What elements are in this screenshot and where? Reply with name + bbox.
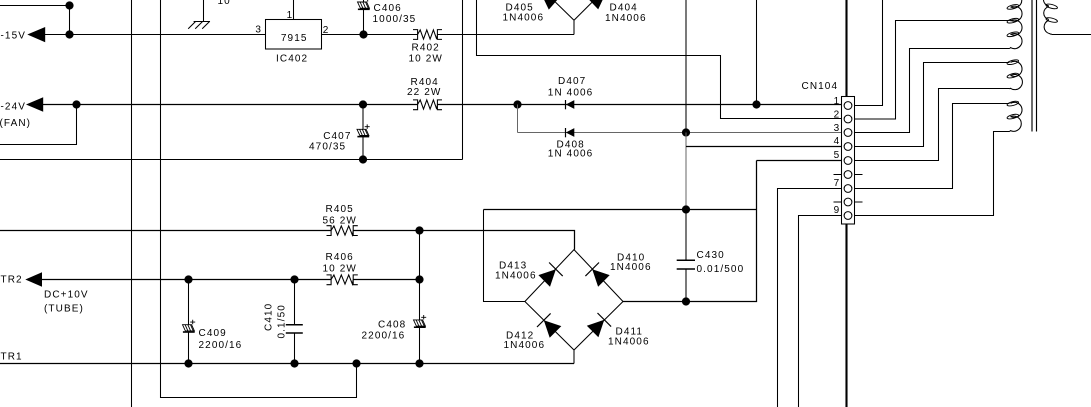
wire vertical net to C430 upper: [685, 0, 687, 133]
wire link R405 to R406: [419, 231, 421, 280]
node junction C409 bottom: [184, 359, 192, 367]
node junction -24V branch: [72, 100, 80, 108]
transformer T1 secondary winding: [1007, 0, 1023, 131]
wire pin7 to transformer: [855, 104, 1010, 189]
wire pin9 drop: [799, 216, 842, 407]
diode D408: [548, 128, 594, 160]
op-amp U1 regulator IC402 7915 body: [266, 20, 322, 65]
resistor R404: [407, 77, 442, 110]
wire TR2 rail: [41, 279, 420, 281]
svg-text:C406: C406: [374, 3, 402, 14]
wire vertical return left of bridge1: [462, 0, 464, 160]
svg-text:1000/35: 1000/35: [373, 14, 417, 25]
svg-text:TR1: TR1: [1, 352, 23, 363]
wire pin4 net: [686, 146, 842, 148]
node junction at C430 top: [682, 205, 690, 213]
svg-text:1: 1: [834, 96, 841, 107]
ground: [188, 0, 210, 29]
wire bridge2 right vertex to pin5 riser: [623, 161, 842, 302]
pin 6 CN104: [834, 171, 863, 179]
wire thick boundary upper: [845, 0, 847, 97]
svg-text:1N4006: 1N4006: [608, 336, 650, 347]
diode D407: [548, 76, 594, 110]
wire DC- line to bridge2 top: [0, 231, 575, 250]
pin 2 CN104: [834, 109, 852, 123]
node junction pin1 net: [752, 100, 760, 108]
svg-text:2: 2: [834, 109, 841, 120]
svg-text:10: 10: [218, 0, 231, 7]
wire bridge2 bottom drop to TR1: [573, 350, 575, 364]
node junction D407/D408: [513, 100, 521, 108]
wire IC402 output rail: [322, 34, 575, 36]
svg-text:CN104: CN104: [802, 81, 839, 92]
svg-text:10 2W: 10 2W: [409, 54, 443, 65]
net label TR2 DC+10V (TUBE) arrow: [1, 272, 89, 314]
transformer T1 core: [1032, 0, 1037, 132]
wire pin5 to transformer: [855, 89, 1010, 161]
svg-text:1N4006: 1N4006: [504, 340, 546, 351]
node junction C408 bottom: [415, 359, 423, 367]
capacitor C406: [358, 0, 417, 35]
wire pin3 to transformer: [855, 49, 1010, 133]
wire pin4 to transformer: [855, 63, 1010, 147]
wire pin2 to transformer: [855, 21, 1010, 120]
svg-text:C408: C408: [378, 319, 406, 330]
wire ground return rail: [0, 159, 463, 161]
diode D404: [574, 0, 647, 24]
connector CN104 body: [802, 81, 855, 224]
svg-text:3: 3: [255, 24, 262, 35]
diode D410: [585, 252, 651, 286]
svg-text:1: 1: [287, 10, 294, 21]
svg-text:470/35: 470/35: [309, 142, 346, 153]
wire -24V rail to CN104 pin1: [41, 104, 842, 106]
svg-text:0.01/500: 0.01/500: [697, 264, 745, 275]
node junction C430 bottom: [682, 297, 690, 305]
svg-text:(TUBE): (TUBE): [44, 303, 84, 314]
wire primary lead to edge: [1052, 34, 1091, 36]
wire top-left rail: [0, 5, 70, 7]
capacitor C408: [362, 280, 427, 364]
transformer T1 primary winding: [1043, 0, 1057, 34]
diode D413: [495, 261, 563, 287]
svg-text:56 2W: 56 2W: [323, 215, 357, 226]
node junction on -15V rail: [65, 30, 73, 38]
diode D411: [587, 313, 650, 347]
wire riser to bridge2 left vertex: [484, 210, 525, 302]
node junction R405/R406 link top: [415, 226, 423, 234]
node junction bottom return: [352, 359, 360, 367]
diode D405: [503, 0, 575, 23]
svg-text:TR2: TR2: [1, 275, 23, 286]
wire -15V rail to IC402 pin3: [43, 34, 266, 36]
svg-text:1N 4006: 1N 4006: [548, 149, 594, 160]
svg-text:R405: R405: [326, 204, 354, 215]
svg-text:D404: D404: [610, 2, 638, 13]
svg-text:5: 5: [834, 150, 841, 161]
net label -15V arrow: [1, 27, 46, 42]
wire bridge1 negative drop: [573, 20, 575, 34]
wire AC feed line to bridge2 left: [484, 209, 757, 211]
svg-text:R404: R404: [411, 77, 439, 88]
svg-text:1N4006: 1N4006: [610, 262, 652, 273]
resistor R402: [409, 30, 443, 65]
diode D412: [504, 313, 562, 351]
svg-text:2200/16: 2200/16: [362, 330, 406, 341]
capacitor C410: [264, 280, 303, 364]
svg-text:IC402: IC402: [276, 54, 308, 65]
node junction pin3 net: [682, 128, 690, 136]
wire long vertical bus 1: [131, 0, 133, 407]
wire pin7 drop: [778, 189, 842, 407]
node junction C410 top: [290, 275, 298, 283]
resistor R406: [323, 252, 358, 285]
node junction top-left: [65, 1, 73, 9]
svg-text:R402: R402: [412, 43, 440, 54]
svg-text:DC+10V: DC+10V: [44, 290, 89, 301]
capacitor C409: [183, 280, 243, 364]
node junction at C407 top: [359, 100, 367, 108]
node junction C410 bottom: [290, 359, 298, 367]
pin 9 CN104: [834, 205, 852, 219]
wire gray segment of C430 net: [685, 133, 687, 210]
net label -24V (FAN) arrow: [0, 97, 43, 129]
capacitor C407: [309, 105, 370, 160]
svg-text:C409: C409: [199, 328, 227, 339]
svg-text:C430: C430: [697, 250, 725, 261]
svg-text:D407: D407: [558, 76, 586, 87]
svg-text:-15V: -15V: [1, 30, 27, 41]
resistor R405: [323, 204, 358, 236]
svg-text:1N4006: 1N4006: [503, 12, 545, 23]
wire pin1 to transformer: [855, 0, 883, 106]
svg-text:1N 4006: 1N 4006: [548, 87, 594, 98]
node junction C409 top: [184, 275, 192, 283]
pin 8 CN104: [834, 198, 863, 206]
capacitor C430: [677, 210, 745, 302]
svg-text:1N4006: 1N4006: [605, 13, 647, 24]
wire pin1 riser: [756, 0, 758, 105]
wire AC loop from bridge1 to CN104 pin2: [477, 0, 842, 119]
svg-text:C407: C407: [323, 131, 351, 142]
svg-text:2200/16: 2200/16: [199, 340, 243, 351]
wire pin9 to transformer: [855, 132, 1010, 216]
pin 4 CN104: [834, 136, 852, 150]
pin 7 CN104: [834, 178, 852, 193]
pin 5 CN104: [834, 150, 852, 164]
svg-text:10 2W: 10 2W: [323, 264, 357, 275]
wire FAN stub: [0, 105, 77, 145]
wire thick boundary lower: [845, 224, 847, 407]
node junction at C407 bottom: [359, 155, 367, 163]
svg-text:7915: 7915: [281, 33, 308, 44]
wire D408 branch: [518, 105, 842, 133]
svg-text:3: 3: [834, 123, 841, 134]
svg-text:C410: C410: [264, 303, 275, 331]
node junction at C406: [359, 30, 367, 38]
bridge rectifier D410-D413 diamond: [525, 250, 623, 350]
pin 1 IC402: [287, 0, 294, 21]
svg-text:9: 9: [834, 205, 841, 216]
wire long vertical bus 2 with bottom return: [161, 0, 357, 398]
svg-text:4: 4: [834, 136, 841, 147]
svg-text:7: 7: [834, 178, 841, 189]
svg-text:22 2W: 22 2W: [407, 87, 441, 98]
svg-text:-24V: -24V: [1, 102, 27, 113]
pin 3 CN104: [834, 123, 852, 137]
svg-text:1N4006: 1N4006: [495, 271, 537, 282]
wire vertical link to -15V rail: [69, 6, 71, 35]
svg-text:(FAN): (FAN): [0, 118, 31, 129]
node junction C408 top: [415, 275, 423, 283]
svg-text:0.1/50: 0.1/50: [277, 304, 288, 338]
wire TR1 rail: [0, 363, 574, 365]
svg-text:R406: R406: [326, 252, 354, 263]
pin 1 CN104: [834, 96, 852, 109]
